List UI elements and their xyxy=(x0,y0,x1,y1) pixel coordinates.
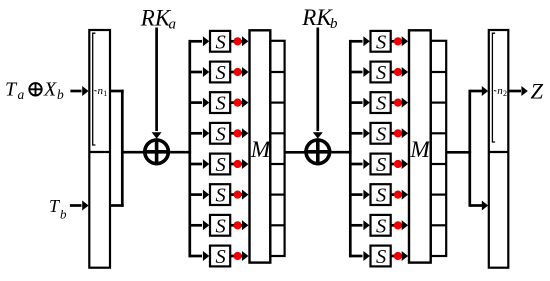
sbox S1 xyxy=(210,31,230,53)
svg-text:S: S xyxy=(216,93,226,115)
label n1 xyxy=(94,85,107,98)
wire sbox S4 to mixer M1 with tap node xyxy=(230,128,248,138)
svg-text:T: T xyxy=(5,79,18,101)
svg-text:S: S xyxy=(376,31,386,53)
wire sbox S13 to mixer M2 with tap node xyxy=(391,159,408,169)
sbox S13 xyxy=(371,154,391,176)
wire branch to sbox S13 xyxy=(350,159,370,169)
svg-text:S: S xyxy=(376,246,386,268)
xor U1 xyxy=(143,138,170,165)
sbox S16 xyxy=(371,246,391,268)
wire sbox S10 to mixer M2 with tap node xyxy=(391,67,408,77)
svg-text:S: S xyxy=(216,185,226,207)
wire branch to sbox S14 xyxy=(350,190,370,200)
svg-text:Z: Z xyxy=(531,79,544,104)
sbox S2 xyxy=(210,62,230,84)
wire sbox S12 to mixer M2 with tap node xyxy=(391,128,408,138)
register R1 xyxy=(89,30,110,268)
wire merge bus to xor U1 xyxy=(122,151,144,154)
wire branch to sbox S12 xyxy=(350,128,370,138)
sbox S14 xyxy=(371,184,391,206)
sbox S5 xyxy=(210,154,230,176)
svg-text:S: S xyxy=(216,215,226,237)
svg-text:b: b xyxy=(330,16,338,32)
split bus vertical xyxy=(468,90,471,207)
wire ladder L1 to xor U2 xyxy=(285,151,306,154)
sbox S9 xyxy=(371,31,391,53)
xor U2 xyxy=(304,138,331,165)
sbox S7 xyxy=(210,215,230,237)
svg-text:S: S xyxy=(216,246,226,268)
wire sbox S14 to mixer M2 with tap node xyxy=(391,190,408,200)
wire sbox S1 to mixer M1 with tap node xyxy=(230,36,248,46)
wire Ta input arrow xyxy=(70,86,88,96)
wire split to R2 top half xyxy=(470,86,488,96)
wire ladder L2 to split bus xyxy=(446,151,471,154)
bracket n2 span xyxy=(492,33,495,142)
label n2 xyxy=(494,85,507,98)
svg-text:RK: RK xyxy=(140,6,172,31)
input node Tb xyxy=(49,196,67,222)
wire branch to sbox S7 xyxy=(190,220,210,230)
wire sbox S2 to mixer M1 with tap node xyxy=(230,67,248,77)
svg-text:M: M xyxy=(409,137,431,163)
wire sbox S8 to mixer M1 with tap node xyxy=(230,251,248,261)
wire R1 top-half output xyxy=(110,90,124,93)
key label RKb xyxy=(301,5,338,32)
svg-text:S: S xyxy=(216,154,226,176)
svg-text:1: 1 xyxy=(103,89,107,98)
wire branch to sbox S16 xyxy=(350,251,370,261)
wire split to R2 bottom half xyxy=(470,201,488,211)
mixer M2 xyxy=(409,30,431,262)
sbox S3 xyxy=(210,92,230,114)
wire sbox S6 to mixer M1 with tap node xyxy=(230,190,248,200)
svg-text:S: S xyxy=(376,93,386,115)
wire sbox S5 to mixer M1 with tap node xyxy=(230,159,248,169)
svg-text:b: b xyxy=(57,87,64,102)
svg-text:S: S xyxy=(376,123,386,145)
sbox S12 xyxy=(371,123,391,145)
wire sbox S7 to mixer M1 with tap node xyxy=(230,220,248,230)
output node Z xyxy=(531,79,544,104)
wire sbox S15 to mixer M2 with tap node xyxy=(391,220,408,230)
wire sbox S3 to mixer M1 with tap node xyxy=(230,98,248,108)
wire Tb input arrow xyxy=(70,201,89,211)
wire xor U2 to fanout bus B2 xyxy=(331,151,351,154)
wire RKb to xor U2 xyxy=(313,28,323,139)
svg-text:S: S xyxy=(216,62,226,84)
sbox S10 xyxy=(371,62,391,84)
bracket n1 span xyxy=(93,33,96,145)
wire branch to sbox S4 xyxy=(190,128,210,138)
svg-text:RK: RK xyxy=(301,5,333,30)
svg-text:S: S xyxy=(376,62,386,84)
wire branch to sbox S3 xyxy=(190,98,210,108)
wire branch to sbox S10 xyxy=(350,67,370,77)
svg-text:M: M xyxy=(250,137,272,163)
wire branch to sbox S6 xyxy=(190,190,210,200)
fanout bus B2 xyxy=(349,40,352,258)
wire sbox S11 to mixer M2 with tap node xyxy=(391,98,408,108)
wire branch to sbox S1 xyxy=(190,36,210,46)
wire branch to sbox S8 xyxy=(190,251,210,261)
svg-text:S: S xyxy=(376,215,386,237)
wire branch to sbox S2 xyxy=(190,67,210,77)
wire sbox S9 to mixer M2 with tap node xyxy=(391,36,408,46)
sbox S8 xyxy=(210,246,230,268)
svg-text:a: a xyxy=(169,17,177,33)
sbox S4 xyxy=(210,123,230,145)
sbox S15 xyxy=(371,215,391,237)
wire R1 bottom-half output xyxy=(110,204,124,207)
svg-text:a: a xyxy=(18,87,25,102)
wire sbox S16 to mixer M2 with tap node xyxy=(391,251,408,261)
wire branch to sbox S9 xyxy=(350,36,370,46)
sbox S11 xyxy=(371,92,391,114)
output ladder register L2 xyxy=(431,41,447,256)
fanout bus B1 xyxy=(188,40,191,258)
wire R2 to output Z xyxy=(508,86,528,96)
wire xor U1 to fanout bus B1 xyxy=(170,151,191,154)
svg-text:X: X xyxy=(43,79,57,101)
key label RKa xyxy=(140,6,176,33)
wire RKa to xor U1 xyxy=(152,28,162,139)
wire vertical merge bus xyxy=(121,90,124,207)
svg-text:S: S xyxy=(376,154,386,176)
mixer M1 xyxy=(250,30,272,262)
svg-text:S: S xyxy=(216,31,226,53)
input node Ta xor Xb xyxy=(5,79,64,103)
svg-text:2: 2 xyxy=(503,89,507,98)
register R2 xyxy=(489,30,509,268)
sbox S6 xyxy=(210,184,230,206)
wire branch to sbox S11 xyxy=(350,98,370,108)
svg-text:S: S xyxy=(376,185,386,207)
wire branch to sbox S5 xyxy=(190,159,210,169)
svg-text:S: S xyxy=(216,123,226,145)
wire branch to sbox S15 xyxy=(350,220,370,230)
svg-text:b: b xyxy=(60,207,67,222)
output ladder register L1 xyxy=(270,41,284,256)
